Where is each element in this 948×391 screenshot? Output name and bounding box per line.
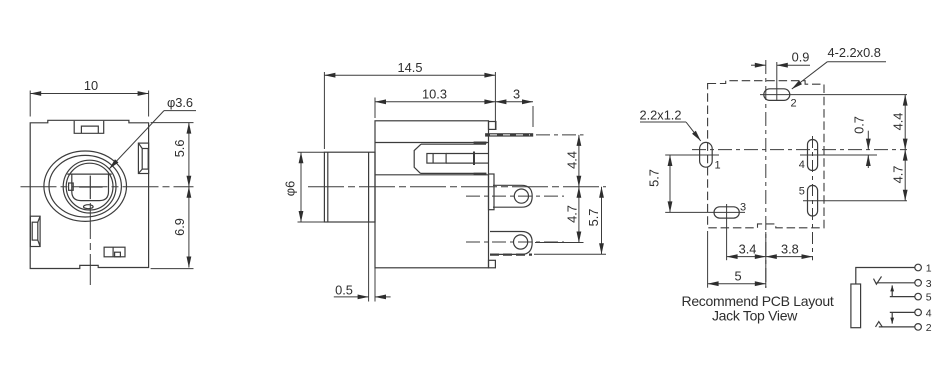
svg-text:4: 4 bbox=[799, 159, 805, 171]
cavity bottom line bbox=[375, 174, 489, 176]
svg-text:φ6: φ6 bbox=[283, 181, 298, 196]
switch arrow 4 bbox=[891, 312, 893, 323]
svg-text:4: 4 bbox=[926, 307, 932, 319]
centerline vertical bbox=[89, 203, 91, 285]
svg-text:4.7: 4.7 bbox=[565, 205, 580, 223]
svg-text:5: 5 bbox=[799, 186, 805, 198]
dim 4.7 line (pcb) bbox=[904, 150, 906, 201]
cavity top line bbox=[375, 142, 489, 144]
svg-text:10: 10 bbox=[84, 78, 98, 93]
wire pin 4 bbox=[890, 311, 915, 313]
top pin centerline ext bbox=[536, 134, 584, 136]
cavity bottom dark segment bbox=[474, 173, 487, 175]
hole 3 row line bbox=[665, 211, 745, 213]
bottom detail block bbox=[104, 247, 125, 257]
svg-text:5: 5 bbox=[926, 292, 932, 304]
top recess inner tab bbox=[81, 126, 98, 133]
pcb horizontal centerline bbox=[692, 149, 907, 151]
slot shape bbox=[414, 144, 421, 173]
dim 5.7 bottom ext bbox=[534, 253, 606, 255]
hole 2 (slot) bbox=[764, 89, 790, 101]
jack body outline J1 front bbox=[30, 120, 148, 268]
hole 2 row line bbox=[760, 94, 907, 96]
centerline horizontal bbox=[21, 186, 194, 188]
dim 10.3 line bbox=[375, 101, 495, 103]
wire pin 2 bbox=[879, 326, 915, 328]
dim 0.7 arrows bbox=[867, 131, 869, 150]
chord line bbox=[67, 173, 111, 175]
pin 2 circle bbox=[915, 324, 922, 331]
sleeve bar bbox=[851, 284, 861, 328]
cavity top dark segment bbox=[474, 141, 487, 143]
svg-text:5: 5 bbox=[734, 269, 741, 284]
middle pin shoulder bbox=[489, 174, 495, 210]
svg-text:3: 3 bbox=[513, 87, 520, 102]
cross horizontal bbox=[79, 186, 103, 188]
svg-text:5.7: 5.7 bbox=[586, 209, 601, 227]
bottom pin bbox=[490, 232, 532, 255]
dim 3 line bbox=[495, 101, 533, 103]
bottom pin dark edge bbox=[490, 254, 532, 256]
hole 1 row line bbox=[665, 154, 719, 156]
top pin bbox=[486, 134, 533, 137]
dim phi6 line bbox=[300, 152, 302, 222]
dim 5.7 line (side) bbox=[601, 187, 603, 254]
svg-text:0.7: 0.7 bbox=[852, 116, 867, 134]
svg-text:4-2.2x0.8: 4-2.2x0.8 bbox=[828, 45, 881, 60]
hole 4 row line bbox=[800, 154, 877, 156]
hole 4 (slot) bbox=[808, 140, 818, 171]
hole 3 (slot) bbox=[714, 207, 739, 218]
dim 0.9 arrows bbox=[751, 64, 766, 66]
contact check 3 bbox=[874, 276, 882, 284]
top recess notch bbox=[74, 121, 104, 133]
svg-text:5.6: 5.6 bbox=[172, 140, 187, 158]
dim 0.5 arrows bbox=[334, 296, 369, 298]
dim 10.3 ext left bbox=[374, 98, 376, 119]
small tongue bbox=[84, 205, 94, 209]
hole 1 (slot) bbox=[700, 142, 713, 167]
leader 4-2.2x0.8 bbox=[827, 61, 886, 63]
pin 4 circle bbox=[915, 309, 922, 316]
hole 5 row line bbox=[803, 200, 907, 202]
dim 0.5 ext lines bbox=[368, 222, 370, 302]
wire pin 3 bbox=[876, 282, 914, 284]
svg-text:1: 1 bbox=[926, 263, 932, 275]
svg-text:0.9: 0.9 bbox=[792, 50, 810, 65]
svg-text:Jack Top View: Jack Top View bbox=[712, 308, 798, 324]
bushing inner circle bbox=[66, 163, 113, 210]
svg-text:6.9: 6.9 bbox=[172, 218, 187, 236]
dim 5 ext left bbox=[707, 231, 709, 288]
barrel back ring bbox=[368, 152, 370, 222]
top right block bbox=[489, 122, 496, 130]
hole 3 centerline vertical bbox=[726, 204, 728, 260]
leader phi3.6 bbox=[164, 110, 196, 112]
dim phi6 ext bbox=[298, 151, 325, 153]
middle pin hole bbox=[514, 189, 528, 203]
bottom pin hole bbox=[514, 235, 528, 249]
pin 3 circle bbox=[915, 280, 922, 287]
wire to pin 1 bbox=[856, 268, 915, 285]
dim 3 ext right bbox=[532, 106, 534, 127]
svg-text:14.5: 14.5 bbox=[398, 60, 423, 75]
barrel bbox=[324, 152, 375, 222]
bushing outer circle bbox=[63, 160, 116, 213]
switch arrow 5 bbox=[891, 285, 893, 296]
pcb vertical centerline bbox=[765, 60, 767, 288]
outer boss ellipse bbox=[44, 151, 127, 221]
cross vertical bbox=[89, 176, 91, 200]
svg-text:4.7: 4.7 bbox=[890, 166, 905, 184]
middle pin bbox=[493, 185, 532, 207]
svg-text:4.4: 4.4 bbox=[890, 113, 905, 131]
svg-text:4.4: 4.4 bbox=[565, 151, 580, 169]
dim 5.6 line bbox=[188, 123, 190, 187]
svg-text:3.8: 3.8 bbox=[781, 242, 799, 257]
dim 14.5 ext right bbox=[494, 72, 496, 130]
dim 5.6/6.9 ext lines bbox=[151, 122, 194, 124]
contact hat 2 bbox=[876, 322, 883, 327]
svg-text:3: 3 bbox=[926, 278, 932, 290]
left side tab bbox=[30, 216, 40, 246]
dim 10 ext lines bbox=[29, 91, 31, 117]
svg-text:3: 3 bbox=[740, 202, 746, 214]
svg-text:2: 2 bbox=[926, 322, 932, 334]
dim 3.8 line bbox=[766, 256, 813, 258]
dim 4.4 line (side) bbox=[578, 135, 580, 187]
svg-text:10.3: 10.3 bbox=[422, 87, 447, 102]
hole 2 centerline vertical bbox=[776, 62, 778, 101]
dim 4.7 line (side) bbox=[578, 187, 580, 243]
svg-text:2.2x1.2: 2.2x1.2 bbox=[640, 108, 682, 123]
dim 4.7 bottom ext bbox=[535, 242, 584, 244]
svg-text:5.7: 5.7 bbox=[647, 169, 662, 187]
pin 5 circle bbox=[915, 293, 922, 300]
dim 14.5 line bbox=[324, 74, 495, 76]
leader 2.2x1.2 bbox=[640, 121, 686, 123]
svg-text:φ3.6: φ3.6 bbox=[167, 95, 193, 110]
svg-text:2: 2 bbox=[791, 98, 797, 110]
second boss ellipse bbox=[49, 155, 121, 217]
dim 6.9 line bbox=[188, 187, 190, 268]
dim 10 line bbox=[30, 93, 148, 95]
dim 4.4 line (pcb) bbox=[904, 95, 906, 150]
pin2 centerline bbox=[466, 195, 564, 197]
svg-text:0.5: 0.5 bbox=[335, 283, 353, 298]
jack hole shape bbox=[72, 174, 109, 201]
hole left notch bbox=[69, 183, 74, 190]
axis centerline bbox=[308, 186, 606, 188]
right side tab bbox=[138, 143, 148, 173]
bottom right block bbox=[489, 260, 496, 268]
body rect bbox=[375, 121, 489, 268]
pcb centerline lower solid ext bbox=[765, 232, 767, 288]
hole 5 (slot) bbox=[808, 185, 818, 216]
contact rect bbox=[427, 154, 446, 164]
dim 3.4 line bbox=[727, 256, 766, 258]
pin 1 circle bbox=[915, 264, 922, 271]
contact band bbox=[446, 153, 474, 155]
barrel face ring bbox=[327, 152, 329, 222]
dim 5 line bbox=[708, 283, 766, 285]
svg-text:3.4: 3.4 bbox=[739, 242, 757, 257]
dim 5.7 line (pcb) bbox=[669, 155, 671, 212]
pcb outline bbox=[708, 81, 824, 228]
wire pin 5 bbox=[890, 296, 915, 298]
svg-text:1: 1 bbox=[715, 160, 721, 172]
holes 4/5 centerline vertical bbox=[812, 136, 814, 260]
dim 14.5 ext left bbox=[323, 72, 325, 149]
pin3 centerline bbox=[466, 241, 564, 243]
